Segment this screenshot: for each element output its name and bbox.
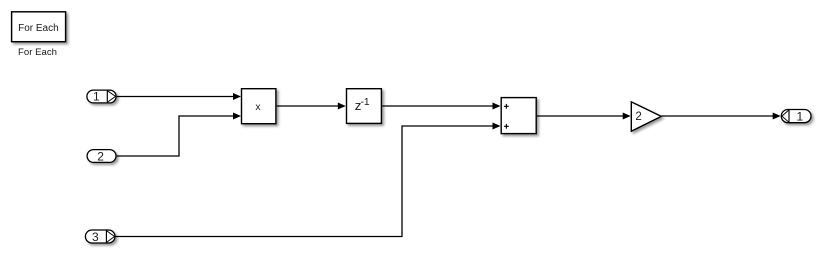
- outport 1: [781, 109, 811, 124]
- wire product to unit delay: [277, 105, 339, 107]
- inport 3: [85, 230, 115, 245]
- svg-text:x: x: [255, 102, 261, 113]
- arrowhead at outport input: [773, 113, 781, 120]
- arrowhead at gain input: [623, 113, 631, 120]
- wire sum to gain: [537, 115, 624, 117]
- sum block: [501, 98, 536, 134]
- svg-text:For Each: For Each: [18, 23, 59, 34]
- inport 1: [87, 89, 116, 103]
- arrowhead at sum input 1: [493, 103, 501, 110]
- product block U_product: [242, 89, 276, 124]
- arrowhead at unit delay input: [338, 103, 346, 110]
- wire inport1 to product: [117, 96, 234, 98]
- svg-text:1: 1: [796, 110, 803, 124]
- svg-text:1: 1: [93, 89, 100, 103]
- gain block value 2: [631, 102, 661, 131]
- svg-text:-1: -1: [361, 97, 370, 108]
- arrowhead at product input 2: [233, 113, 241, 120]
- svg-text:2: 2: [97, 149, 104, 163]
- unit delay block z^-1: [347, 89, 382, 124]
- wire inport2 to product: [117, 116, 234, 156]
- svg-text:2: 2: [635, 111, 641, 123]
- svg-text:3: 3: [92, 230, 99, 244]
- inport 2: [87, 149, 116, 163]
- arrowhead at sum input 2: [493, 123, 501, 130]
- wire inport3 to sum: [115, 126, 493, 237]
- wire unit delay to sum: [382, 105, 493, 107]
- arrowhead at product input 1: [233, 93, 241, 100]
- wire gain to outport: [662, 115, 774, 117]
- svg-text:For Each: For Each: [18, 47, 57, 58]
- For Each block: [12, 12, 66, 42]
